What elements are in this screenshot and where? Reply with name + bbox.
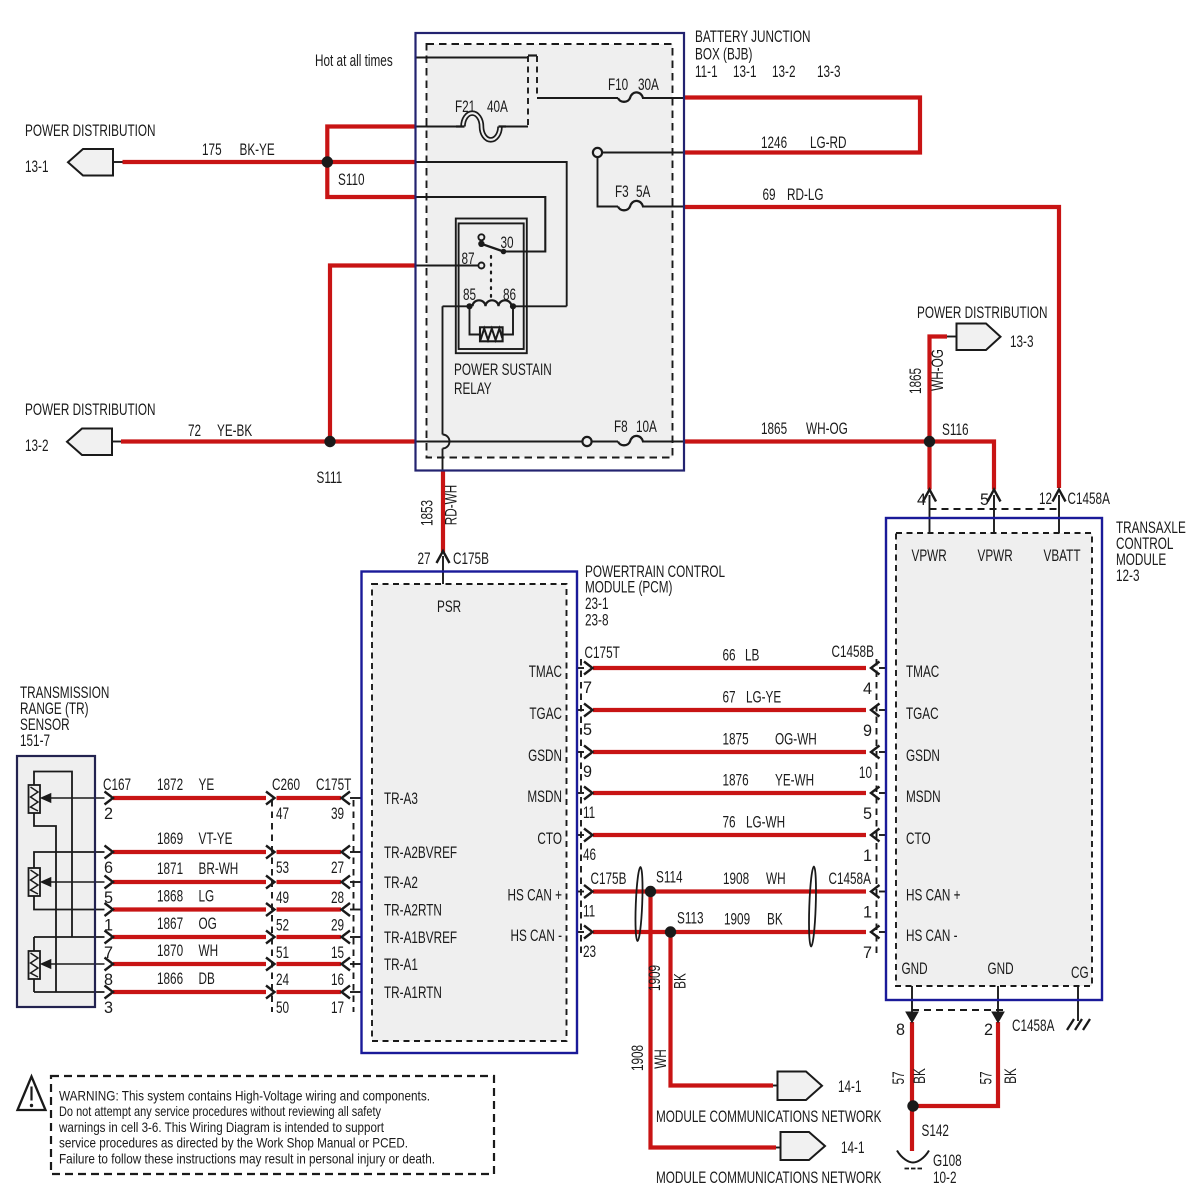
svg-text:TGAC: TGAC (529, 705, 562, 723)
svg-text:57: 57 (890, 1071, 908, 1084)
svg-text:G108: G108 (933, 1152, 962, 1170)
svg-text:BATTERY JUNCTION: BATTERY JUNCTION (695, 28, 811, 46)
svg-text:23-8: 23-8 (585, 612, 609, 630)
svg-text:S142: S142 (922, 1122, 949, 1140)
svg-text:12-3: 12-3 (1116, 567, 1140, 585)
svg-text:5A: 5A (636, 183, 651, 201)
svg-text:28: 28 (331, 889, 344, 907)
svg-text:39: 39 (331, 805, 344, 823)
svg-text:5: 5 (104, 889, 113, 907)
svg-text:13-2: 13-2 (25, 437, 49, 455)
svg-text:C260: C260 (272, 776, 300, 794)
svg-text:13-1: 13-1 (25, 158, 49, 176)
svg-text:30: 30 (501, 234, 514, 252)
svg-text:1909: 1909 (646, 965, 664, 991)
svg-text:BOX (BJB): BOX (BJB) (695, 46, 752, 64)
svg-text:WH: WH (652, 1049, 670, 1069)
svg-text:OG: OG (199, 915, 217, 933)
svg-text:14-1: 14-1 (838, 1078, 862, 1096)
svg-text:1868: 1868 (157, 888, 183, 906)
svg-text:C167: C167 (103, 776, 131, 794)
svg-text:C175T: C175T (316, 776, 351, 794)
svg-text:BK: BK (911, 1068, 929, 1084)
svg-text:GND: GND (988, 960, 1014, 978)
svg-text:S111: S111 (317, 469, 343, 487)
svg-text:23-1: 23-1 (585, 595, 609, 613)
svg-text:C175B: C175B (453, 550, 489, 568)
svg-text:VPWR: VPWR (978, 547, 1013, 565)
svg-text:11-1: 11-1 (695, 63, 718, 81)
svg-text:72: 72 (188, 422, 201, 440)
svg-text:9: 9 (863, 722, 872, 740)
svg-text:5: 5 (583, 721, 592, 739)
svg-text:BK: BK (1002, 1068, 1020, 1084)
svg-text:2: 2 (104, 805, 113, 823)
svg-text:1909: 1909 (724, 911, 750, 929)
svg-text:Hot at all times: Hot at all times (315, 52, 393, 70)
svg-text:LG-RD: LG-RD (810, 134, 847, 152)
svg-text:POWER DISTRIBUTION: POWER DISTRIBUTION (25, 122, 156, 140)
svg-text:VT-YE: VT-YE (199, 830, 233, 848)
svg-text:S113: S113 (677, 910, 704, 928)
svg-text:13-3: 13-3 (817, 63, 841, 81)
svg-text:1870: 1870 (157, 942, 183, 960)
svg-text:TR-A3: TR-A3 (384, 790, 418, 808)
svg-text:TMAC: TMAC (529, 663, 563, 681)
svg-text:2: 2 (984, 1021, 993, 1039)
svg-text:CTO: CTO (906, 830, 931, 848)
svg-text:BK: BK (672, 973, 690, 989)
svg-text:13-3: 13-3 (1010, 333, 1034, 351)
svg-text:57: 57 (978, 1071, 996, 1084)
svg-text:warnings in cell 3-6. This Wi: warnings in cell 3-6. This Wiring Diagra… (58, 1120, 384, 1135)
svg-text:16: 16 (331, 971, 344, 989)
svg-text:27: 27 (418, 550, 431, 568)
svg-text:7: 7 (104, 944, 113, 962)
svg-text:23: 23 (583, 943, 596, 961)
svg-text:1853: 1853 (419, 500, 437, 526)
svg-text:Do not attempt any service pro: Do not attempt any service procedures wi… (59, 1104, 381, 1119)
svg-text:C1458A: C1458A (1068, 490, 1111, 508)
svg-text:LG-WH: LG-WH (746, 814, 785, 832)
svg-text:1908: 1908 (723, 870, 749, 888)
svg-text:POWER SUSTAIN: POWER SUSTAIN (454, 361, 552, 379)
svg-text:1: 1 (104, 917, 113, 935)
svg-text:1876: 1876 (723, 772, 749, 790)
svg-text:13-1: 13-1 (733, 63, 757, 81)
svg-text:F21: F21 (455, 98, 475, 116)
svg-text:HS CAN -: HS CAN - (511, 927, 563, 945)
svg-text:8: 8 (104, 971, 113, 989)
svg-text:17: 17 (331, 999, 344, 1017)
svg-text:1866: 1866 (157, 970, 183, 988)
svg-text:1875: 1875 (723, 731, 749, 749)
svg-text:GSDN: GSDN (906, 747, 940, 765)
svg-text:WH-OG: WH-OG (806, 420, 848, 438)
svg-text:15: 15 (331, 944, 344, 962)
svg-text:TR-A1: TR-A1 (384, 956, 418, 974)
svg-text:CG: CG (1071, 964, 1089, 982)
svg-text:C1458B: C1458B (832, 643, 874, 661)
svg-text:WH: WH (199, 942, 219, 960)
svg-text:46: 46 (583, 846, 596, 864)
svg-text:C1458A: C1458A (829, 870, 872, 888)
svg-text:VPWR: VPWR (912, 547, 947, 565)
svg-text:MSDN: MSDN (906, 788, 941, 806)
svg-text:1246: 1246 (761, 134, 787, 152)
svg-text:52: 52 (276, 917, 289, 935)
svg-text:1865: 1865 (761, 420, 787, 438)
svg-text:GND: GND (902, 960, 928, 978)
svg-text:CTO: CTO (537, 830, 562, 848)
svg-text:3: 3 (104, 999, 113, 1017)
svg-text:C175B: C175B (591, 870, 627, 888)
svg-text:11: 11 (583, 903, 595, 921)
svg-text:7: 7 (583, 679, 592, 697)
svg-text:S114: S114 (656, 869, 683, 887)
svg-text:TR-A1BVREF: TR-A1BVREF (384, 929, 457, 947)
svg-text:C175T: C175T (585, 644, 620, 662)
svg-text:TMAC: TMAC (906, 663, 940, 681)
svg-text:1908: 1908 (629, 1045, 647, 1071)
svg-text:VBATT: VBATT (1044, 547, 1081, 565)
svg-text:LG: LG (199, 888, 215, 906)
svg-text:87: 87 (462, 250, 475, 268)
svg-text:8: 8 (896, 1021, 905, 1039)
svg-text:47: 47 (276, 805, 289, 823)
svg-text:51: 51 (276, 944, 289, 962)
svg-text:S116: S116 (942, 421, 969, 439)
svg-text:30A: 30A (638, 76, 659, 94)
svg-text:86: 86 (503, 286, 516, 304)
svg-text:76: 76 (723, 814, 736, 832)
svg-text:TR-A2: TR-A2 (384, 874, 418, 892)
svg-text:1865: 1865 (907, 368, 925, 394)
svg-text:Failure to follow these instru: Failure to follow these instructions may… (59, 1151, 435, 1166)
svg-text:service procedures as directed: service procedures as directed by the Wo… (59, 1136, 408, 1151)
svg-text:GSDN: GSDN (528, 747, 562, 765)
svg-text:1869: 1869 (157, 830, 183, 848)
svg-text:HS CAN +: HS CAN + (906, 887, 961, 905)
svg-text:4: 4 (863, 680, 872, 698)
svg-text:F10: F10 (608, 76, 628, 94)
svg-text:1872: 1872 (157, 776, 183, 794)
svg-text:9: 9 (583, 763, 592, 781)
svg-text:27: 27 (331, 859, 344, 877)
svg-text:LG-YE: LG-YE (746, 689, 781, 707)
svg-text:WH: WH (766, 870, 786, 888)
svg-text:MODULE (PCM): MODULE (PCM) (585, 579, 672, 597)
svg-text:OG-WH: OG-WH (775, 731, 817, 749)
svg-text:40A: 40A (487, 98, 508, 116)
svg-text:1: 1 (863, 847, 872, 865)
svg-text:50: 50 (276, 999, 289, 1017)
svg-text:PSR: PSR (437, 598, 461, 616)
svg-text:MSDN: MSDN (527, 788, 562, 806)
svg-text:66: 66 (723, 647, 736, 665)
svg-text:5: 5 (863, 805, 872, 823)
svg-text:13-2: 13-2 (772, 63, 796, 81)
svg-text:YE-WH: YE-WH (775, 772, 814, 790)
svg-text:53: 53 (276, 859, 289, 877)
svg-text:POWER DISTRIBUTION: POWER DISTRIBUTION (25, 401, 156, 419)
svg-text:1871: 1871 (157, 860, 183, 878)
svg-text:10-2: 10-2 (933, 1169, 957, 1187)
svg-text:14-1: 14-1 (841, 1139, 865, 1157)
svg-text:6: 6 (104, 859, 113, 877)
svg-text:F8: F8 (614, 418, 628, 436)
svg-text:12: 12 (1039, 490, 1052, 508)
svg-text:WH-OG: WH-OG (929, 349, 947, 391)
svg-text:69: 69 (763, 186, 776, 204)
svg-text:11: 11 (583, 804, 595, 822)
svg-text:RELAY: RELAY (454, 380, 492, 398)
svg-text:MODULE COMMUNICATIONS NETWORK: MODULE COMMUNICATIONS NETWORK (656, 1108, 882, 1126)
svg-text:RD-LG: RD-LG (787, 186, 824, 204)
svg-text:49: 49 (276, 889, 289, 907)
svg-text:10: 10 (859, 764, 872, 782)
svg-text:YE: YE (199, 776, 215, 794)
svg-text:MODULE COMMUNICATIONS NETWORK: MODULE COMMUNICATIONS NETWORK (656, 1169, 882, 1187)
svg-text:DB: DB (199, 970, 215, 988)
svg-text:WARNING: This system contains: WARNING: This system contains High-Volta… (59, 1089, 430, 1104)
svg-text:7: 7 (863, 944, 872, 962)
svg-text:YE-BK: YE-BK (217, 422, 252, 440)
svg-text:10A: 10A (636, 418, 657, 436)
svg-text:BK-YE: BK-YE (240, 141, 275, 159)
svg-text:LB: LB (745, 647, 759, 665)
svg-text:85: 85 (463, 286, 476, 304)
svg-text:RD-WH: RD-WH (443, 485, 461, 525)
svg-text:4: 4 (917, 491, 926, 509)
svg-text:HS CAN +: HS CAN + (508, 887, 563, 905)
svg-text:5: 5 (980, 491, 989, 509)
svg-text:S110: S110 (338, 171, 365, 189)
svg-text:1: 1 (863, 904, 872, 922)
svg-text:175: 175 (202, 141, 222, 159)
svg-text:TR-A1RTN: TR-A1RTN (384, 984, 442, 1002)
svg-text:67: 67 (723, 689, 736, 707)
svg-text:HS CAN -: HS CAN - (906, 927, 958, 945)
svg-text:151-7: 151-7 (20, 732, 50, 750)
svg-text:24: 24 (276, 971, 289, 989)
svg-text:TR-A2BVREF: TR-A2BVREF (384, 844, 457, 862)
svg-text:TR-A2RTN: TR-A2RTN (384, 902, 442, 920)
svg-text:POWER DISTRIBUTION: POWER DISTRIBUTION (917, 304, 1048, 322)
svg-text:29: 29 (331, 917, 344, 935)
svg-text:BK: BK (767, 911, 783, 929)
svg-text:F3: F3 (615, 183, 629, 201)
svg-text:BR-WH: BR-WH (199, 860, 239, 878)
svg-text:1867: 1867 (157, 915, 183, 933)
svg-text:C1458A: C1458A (1012, 1017, 1055, 1035)
svg-text:TGAC: TGAC (906, 705, 939, 723)
